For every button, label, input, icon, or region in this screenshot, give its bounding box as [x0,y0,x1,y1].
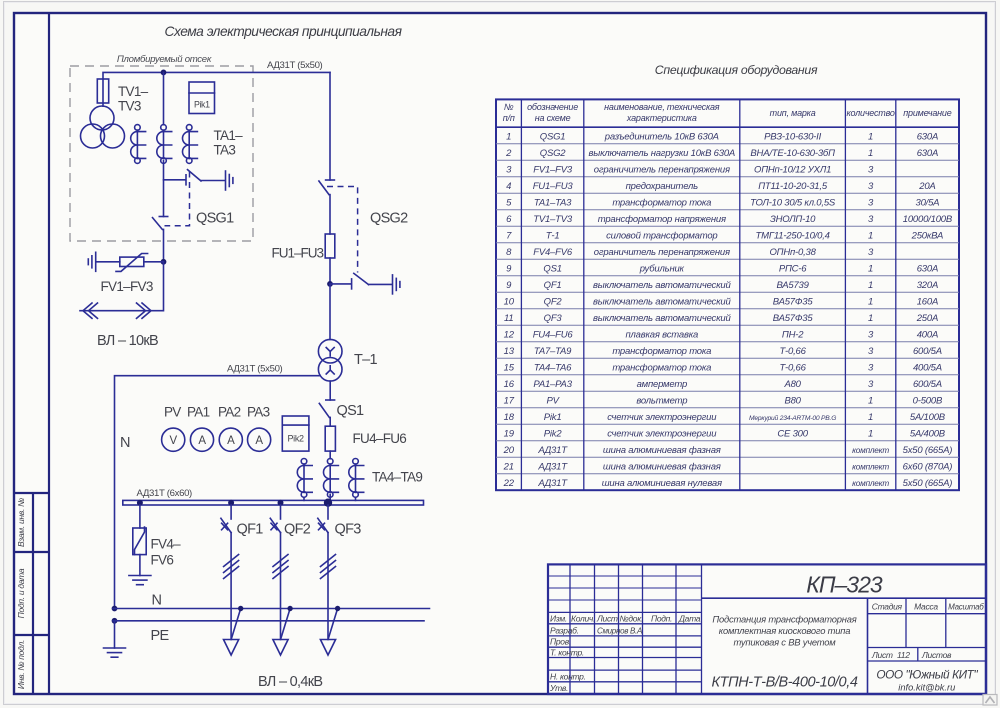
svg-text:Меркурий 234-ARTM-00 PB.G: Меркурий 234-ARTM-00 PB.G [749,414,836,422]
svg-text:разъединитель 10кВ 630А: разъединитель 10кВ 630А [604,131,719,142]
svg-text:QSG2: QSG2 [370,211,408,227]
svg-text:QS1: QS1 [543,263,561,274]
svg-text:10000/100В: 10000/100В [903,214,953,225]
svg-text:трансформатор тока: трансформатор тока [612,197,711,208]
svg-text:600/5А: 600/5А [913,379,942,390]
svg-text:4: 4 [506,181,511,192]
fuse FU1-FU3 [325,234,335,258]
voltmeter PV [162,428,185,451]
svg-text:N: N [120,435,130,451]
fuse of TV1-TV3 [97,79,108,103]
svg-text:счетчик электроэнергии: счетчик электроэнергии [607,428,717,439]
svg-text:ВА57Ф35: ВА57Ф35 [773,296,814,307]
svg-text:250А: 250А [916,313,938,324]
svg-text:630А: 630А [917,148,938,159]
svg-text:FU1–FU3: FU1–FU3 [533,181,574,192]
ammeter PA1 [190,428,213,451]
svg-text:В80: В80 [784,395,801,406]
svg-text:TA4–TA6: TA4–TA6 [534,362,572,373]
svg-text:PA3: PA3 [247,405,270,420]
svg-text:Масса: Масса [914,602,938,612]
svg-text:п/п: п/п [503,113,515,123]
svg-text:250кВА: 250кВА [911,230,944,241]
svg-text:АД31Т (6х60): АД31Т (6х60) [137,488,193,499]
surge arrester FV4-FV6 [139,505,141,528]
svg-text:СЕ 300: СЕ 300 [777,428,808,439]
wire: down to 10kV line corner [80,262,164,311]
svg-text:3: 3 [868,214,874,225]
svg-text:TV3: TV3 [118,99,141,114]
svg-text:характеристика: характеристика [626,113,697,123]
wire: down from TA2 to QSG1 tee [163,161,165,217]
svg-text:PE: PE [151,628,170,644]
current transformer TA6 [349,459,364,498]
svg-text:TA4–TA9: TA4–TA9 [372,470,422,485]
svg-text:1: 1 [868,296,873,307]
svg-text:выключатель автоматический: выключатель автоматический [593,280,731,291]
svg-text:N: N [152,593,162,609]
QSG1 mechanical linkage (dashed) [165,172,190,226]
N bus [113,608,430,610]
node: junction on top bus [161,70,167,76]
svg-text:PA1: PA1 [187,405,210,420]
svg-text:3: 3 [868,346,874,357]
svg-text:обозначение: обозначение [527,102,578,112]
svg-text:Утв.: Утв. [549,683,568,693]
ammeter PA2 [219,428,242,451]
svg-text:РВЗ-10-630-II: РВЗ-10-630-II [764,131,821,142]
svg-text:ООО "Южный КИТ": ООО "Южный КИТ" [876,668,978,682]
wire: neutral from T-1 to left riser (АД31Т 5x50) [115,376,321,609]
svg-text:TV1–: TV1– [118,84,149,99]
wire: middle phase through TA1-TA3 [163,72,165,124]
svg-text:ВЛ – 10кВ: ВЛ – 10кВ [97,333,158,349]
title block staff rows [548,612,702,681]
svg-text:ОПНп-10/12 УХЛ1: ОПНп-10/12 УХЛ1 [754,164,831,175]
QSG2 earthing switch (lower) [330,283,351,285]
svg-text:400А: 400А [917,329,938,340]
svg-text:ВА5739: ВА5739 [776,280,809,291]
svg-text:РПС-6: РПС-6 [779,263,807,274]
svg-text:Разраб.: Разраб. [550,625,579,635]
svg-text:шина алюминиевая нулевая: шина алюминиевая нулевая [602,478,722,489]
svg-text:Инв. № подл.: Инв. № подл. [16,640,26,689]
svg-text:КТПН-Т-В/В-400-10/0,4: КТПН-Т-В/В-400-10/0,4 [711,675,857,691]
meter Pik1 [189,82,215,114]
node: N riser to N bus [112,606,118,612]
svg-text:3: 3 [868,197,874,208]
svg-text:3: 3 [868,247,874,258]
svg-text:TV1–TV3: TV1–TV3 [533,214,573,225]
left stamp cells [14,493,49,694]
QSG1 earthing switch branch [164,179,186,181]
node: N riser to PE bus [112,618,118,624]
svg-text:A: A [227,435,235,447]
svg-text:PA1–PA3: PA1–PA3 [533,379,572,390]
wire: riser to ground [114,621,116,648]
svg-text:тупиковая с ВВ учетом: тупиковая с ВВ учетом [733,637,836,648]
current transformer TA3 [183,125,198,164]
svg-text:ограничитель перенапряжения: ограничитель перенапряжения [594,164,730,175]
svg-text:600/5А: 600/5А [913,346,942,357]
svg-text:плавкая вставка: плавкая вставка [625,329,698,340]
voltage transformer TV1-TV3 (trefoil) [90,106,114,130]
svg-text:ОПНп-0,38: ОПНп-0,38 [769,247,816,258]
svg-text:ВЛ – 0,4кВ: ВЛ – 0,4кВ [258,674,322,690]
svg-text:1: 1 [868,131,873,142]
svg-text:Спецификация оборудования: Спецификация оборудования [655,63,818,77]
svg-text:QSG1: QSG1 [196,211,234,227]
svg-text:тип, марка: тип, марка [770,108,816,118]
meter Pik2 [282,416,309,451]
svg-text:шина алюминиевая фазная: шина алюминиевая фазная [603,445,721,456]
svg-text:11: 11 [504,313,513,324]
svg-text:TA1–: TA1– [214,128,244,143]
svg-text:FV1–FV3: FV1–FV3 [101,279,153,294]
svg-text:выключатель нагрузки 10кВ 630А: выключатель нагрузки 10кВ 630А [589,148,736,159]
svg-text:2: 2 [505,148,512,159]
title block left columns [570,564,702,694]
svg-text:Листов: Листов [921,650,952,660]
svg-text:15: 15 [504,362,515,373]
svg-text:QS1: QS1 [337,403,365,419]
QSG2 mechanical linkage (dashed) [327,187,358,273]
node: QSG2 earth tap [327,281,333,287]
svg-text:QF3: QF3 [335,522,362,538]
svg-text:V: V [170,435,178,447]
svg-text:QSG1: QSG1 [540,131,566,142]
node: QF1 tap on bus [228,500,234,506]
svg-text:трансформатор напряжения: трансформатор напряжения [598,214,726,225]
title block revision rows [548,576,702,600]
specification table [496,99,959,490]
svg-text:TA3: TA3 [214,143,236,158]
svg-text:ТМГ11-250-10/0,4: ТМГ11-250-10/0,4 [755,230,829,241]
current transformer TA4 [297,459,312,498]
svg-text:Т-1: Т-1 [546,230,560,241]
node: QF3 tap on bus [324,499,332,507]
svg-text:амперметр: амперметр [637,379,687,390]
svg-text:10: 10 [504,296,515,307]
svg-text:FV4–FV6: FV4–FV6 [533,247,573,258]
svg-text:17: 17 [504,395,515,406]
svg-text:3: 3 [868,379,874,390]
svg-text:выключатель автоматический: выключатель автоматический [593,313,731,324]
svg-text:A: A [198,435,206,447]
svg-text:ВНА/ТЕ-10-630-3бП: ВНА/ТЕ-10-630-3бП [750,148,835,159]
svg-text:Лист: Лист [596,614,618,624]
svg-text:Т–1: Т–1 [354,352,378,368]
svg-text:силовой трансформатор: силовой трансформатор [606,230,717,241]
svg-text:1: 1 [868,230,873,241]
svg-text:Pik1: Pik1 [194,100,210,110]
sealed compartment dashed box [70,66,253,241]
svg-text:5А/100В: 5А/100В [910,412,946,423]
node: QF2 tap on bus [278,500,284,506]
svg-text:АД31Т (5х50): АД31Т (5х50) [267,60,323,71]
svg-text:АД31Т: АД31Т [537,461,568,472]
svg-text:ЗНОЛП-10: ЗНОЛП-10 [770,214,816,225]
svg-text:ограничитель перенапряжения: ограничитель перенапряжения [594,247,730,258]
watermark logo bottom-right [983,695,997,706]
svg-text:ПТ11-10-20-31,5: ПТ11-10-20-31,5 [758,181,828,192]
svg-text:комплект: комплект [852,479,889,488]
svg-text:предохранитель: предохранитель [626,181,698,192]
svg-text:Лист: Лист [871,650,893,660]
svg-text:Подп. и дата: Подп. и дата [16,568,26,618]
ground (FV1-FV3, left) [88,252,95,271]
svg-text:Дата: Дата [678,614,701,624]
svg-text:А80: А80 [783,379,801,390]
incoming line ВЛ-10кВ arrows [83,303,98,318]
svg-text:КП–323: КП–323 [806,572,883,598]
svg-text:Подстанция трансформаторная: Подстанция трансформаторная [712,614,856,625]
circuit breaker QF2 feeder [270,505,293,655]
svg-text:Пломбируемый отсек: Пломбируемый отсек [117,54,212,65]
circuit breaker QF1 feeder [221,505,244,655]
svg-text:1: 1 [868,280,873,291]
svg-text:PV: PV [164,405,181,420]
svg-text:Стадия: Стадия [872,602,903,612]
svg-text:5х50 (665А): 5х50 (665А) [903,445,953,456]
svg-text:1: 1 [868,428,873,439]
svg-text:QF1: QF1 [237,522,264,538]
svg-text:3: 3 [868,329,874,340]
svg-text:наименование, техническая: наименование, техническая [604,102,720,112]
svg-text:16: 16 [504,379,515,390]
svg-text:QF2: QF2 [284,522,311,538]
svg-text:TA7–TA9: TA7–TA9 [534,346,572,357]
svg-text:трансформатор тока: трансформатор тока [612,362,711,373]
svg-text:1: 1 [506,131,511,142]
svg-text:PA2: PA2 [218,405,241,420]
ground (QSG1 earth) [226,171,233,190]
svg-text:A: A [255,435,263,447]
circuit breaker QF3 feeder [318,505,341,655]
svg-text:счетчик электроэнергии: счетчик электроэнергии [607,412,717,423]
QSG1 main knife contact [159,216,167,218]
svg-text:FV4–: FV4– [151,537,182,552]
svg-text:160А: 160А [917,296,938,307]
svg-text:Смирнов В.А: Смирнов В.А [597,626,642,635]
frame inner left margin line [48,13,50,694]
svg-text:Изм.: Изм. [550,614,567,624]
svg-text:вольтметр: вольтметр [636,395,687,406]
svg-text:5х50 (665А): 5х50 (665А) [903,478,953,489]
wire: down to transformer T-1 [329,284,331,340]
svg-text:FU4–FU6: FU4–FU6 [353,431,407,446]
svg-text:Взам. инв. №: Взам. инв. № [16,498,26,547]
svg-text:18: 18 [504,412,515,423]
svg-text:АД31Т: АД31Т [537,478,568,489]
svg-text:примечание: примечание [903,108,951,118]
svg-text:21: 21 [503,461,514,472]
svg-text:3: 3 [868,181,874,192]
surge arrester FV1-FV3 [96,261,120,263]
svg-text:PV: PV [546,395,560,406]
svg-text:Пров.: Пров. [550,637,571,647]
svg-text:выключатель автоматический: выключатель автоматический [593,296,731,307]
svg-text:АД31Т: АД31Т [537,445,568,456]
wire: 10kV top bus [103,72,330,79]
svg-text:Колич.: Колич. [571,614,595,624]
svg-text:6х60 (870А): 6х60 (870А) [903,461,953,472]
svg-text:QF3: QF3 [544,313,563,324]
svg-text:Масштаб: Масштаб [948,603,984,612]
svg-text:Pik2: Pik2 [544,428,563,439]
svg-text:1: 1 [868,148,873,159]
svg-text:112: 112 [897,650,910,660]
svg-text:комплектная киоскового типа: комплектная киоскового типа [719,625,850,636]
svg-text:FU1–FU3: FU1–FU3 [272,246,324,261]
svg-text:комплект: комплект [852,446,889,455]
svg-text:на схеме: на схеме [535,113,571,123]
svg-text:320А: 320А [917,280,938,291]
current transformer TA5 (middle phase) [324,459,339,498]
svg-text:19: 19 [504,428,515,439]
svg-text:22: 22 [503,478,515,489]
title block frame [548,564,986,694]
current transformer TA2 [157,125,172,164]
svg-text:FV6: FV6 [151,553,174,568]
svg-text:630А: 630А [917,263,938,274]
svg-text:шина алюминиевая фазная: шина алюминиевая фазная [603,461,721,472]
svg-text:FV1–FV3: FV1–FV3 [533,164,573,175]
svg-text:3: 3 [868,164,874,175]
svg-text:Pik2: Pik2 [288,434,304,444]
svg-text:АД31Т (5х50): АД31Т (5х50) [227,364,283,375]
svg-text:1: 1 [868,412,873,423]
svg-text:12: 12 [504,329,515,340]
power transformer T-1 [318,339,342,363]
svg-text:TA1–TA3: TA1–TA3 [534,197,572,208]
svg-text:info.kit@bk.ru: info.kit@bk.ru [898,683,955,693]
node: FV4 tap on bus [137,500,143,506]
svg-text:1: 1 [868,313,873,324]
svg-text:20: 20 [503,445,515,456]
svg-text:Н. контр.: Н. контр. [550,672,586,682]
svg-text:30/5А: 30/5А [915,197,939,208]
svg-text:№: № [504,102,514,112]
svg-text:комплект: комплект [852,462,889,471]
svg-text:Схема электрическая принципиал: Схема электрическая принципиальная [165,24,403,39]
load-break switch QSG2 (upper) [329,72,331,180]
svg-text:3: 3 [868,362,874,373]
svg-text:1: 1 [868,263,873,274]
svg-text:QF1: QF1 [544,280,562,291]
svg-text:ТОЛ-10 30/5 кл.0,5S: ТОЛ-10 30/5 кл.0,5S [750,197,836,208]
svg-text:QF2: QF2 [544,296,563,307]
svg-text:рубильник: рубильник [639,263,685,274]
svg-text:трансформатор тока: трансформатор тока [612,346,711,357]
ground (FV4-FV6) [129,576,151,585]
svg-text:400/5А: 400/5А [913,362,942,373]
svg-text:0-500В: 0-500В [913,395,943,406]
svg-text:Т-0,66: Т-0,66 [779,362,806,373]
node: FV1-FV3 tap [161,259,167,265]
svg-text:Подп.: Подп. [651,614,672,624]
svg-text:№док.: №док. [620,614,644,624]
fuse FU4-FU6 [325,426,335,451]
ammeter PA3 [248,428,271,451]
svg-text:ВА57Ф35: ВА57Ф35 [773,313,814,324]
main bus АД31Т (6x60) [123,500,424,505]
ground (QSG2 earth) [393,275,400,294]
ground (left riser) [104,648,126,657]
svg-text:1: 1 [868,395,873,406]
svg-text:Pik1: Pik1 [544,412,562,423]
svg-text:5А/400В: 5А/400В [910,428,946,439]
PE bus [113,620,424,622]
svg-text:Т-0,66: Т-0,66 [779,346,806,357]
svg-text:630А: 630А [917,131,938,142]
svg-text:QSG2: QSG2 [540,148,567,159]
svg-text:20А: 20А [918,181,935,192]
svg-text:ПН-2: ПН-2 [782,329,804,340]
svg-text:количество: количество [846,108,894,118]
svg-text:FU4–FU6: FU4–FU6 [533,329,574,340]
svg-text:13: 13 [504,346,515,357]
switch QS1 [329,381,331,400]
current transformer TA1 [131,125,146,164]
title block right area dividers [702,597,987,599]
svg-text:Т. контр.: Т. контр. [550,648,584,658]
